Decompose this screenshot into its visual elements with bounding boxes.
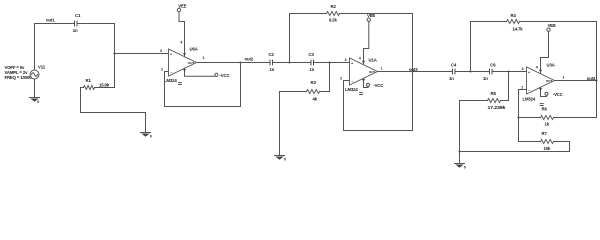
wire R4 right lead <box>520 21 597 23</box>
junction plus-input node <box>113 52 115 54</box>
ground G1 <box>30 98 40 105</box>
svg-text:1n: 1n <box>483 76 488 81</box>
resistor R2 <box>327 4 340 22</box>
svg-text:C6: C6 <box>490 63 496 68</box>
wire R7 left lead <box>519 141 541 143</box>
svg-text:−: − <box>170 70 172 74</box>
svg-text:+: + <box>170 52 172 56</box>
junction C4/C6 node <box>469 70 471 72</box>
svg-text:OUT: OUT <box>188 61 194 65</box>
capacitor C6 <box>483 63 496 82</box>
wire R6 right lead <box>554 117 597 119</box>
pin 11 arrow U1A <box>362 79 365 82</box>
svg-text:1n: 1n <box>310 67 315 72</box>
svg-text:-VCC: -VCC <box>373 83 383 88</box>
wire out1 to C1 <box>35 23 74 25</box>
wire node to op-amp U6A pin 3 <box>115 53 169 55</box>
wire U6A pin 11 stub <box>185 68 216 76</box>
svg-text:2: 2 <box>161 67 163 71</box>
svg-text:VEE: VEE <box>367 13 375 18</box>
svg-text:0: 0 <box>37 100 39 104</box>
svg-text:U1A: U1A <box>369 57 377 62</box>
svg-text:VEE: VEE <box>548 23 556 28</box>
wire U3A pin 11 stub <box>541 87 547 96</box>
wire R4/R6 vertical leg <box>596 22 598 118</box>
svg-text:1n: 1n <box>449 76 454 81</box>
ground G4 <box>455 164 466 170</box>
svg-text:0: 0 <box>464 166 466 170</box>
power terminal VEE (stage 2) <box>367 13 375 22</box>
resistor R4 <box>507 13 524 32</box>
wire U1A pin 2 stub <box>344 80 350 82</box>
svg-text:−: − <box>528 88 530 92</box>
pin 11 label U1A <box>360 93 363 95</box>
wire U6A pin 2 stub <box>165 71 169 73</box>
svg-text:0: 0 <box>150 135 152 139</box>
wire C2 to C3 <box>273 62 310 64</box>
svg-text:6.2k: 6.2k <box>329 17 338 22</box>
power terminal VEE (stage 1) <box>177 3 186 11</box>
power terminal VEE (stage 3) <box>547 23 556 31</box>
wire bottom run to ground stem <box>81 112 146 114</box>
svg-text:C4: C4 <box>451 63 457 68</box>
wire U1A output to C4 <box>378 71 452 73</box>
wire R2/feedback vertical leg <box>412 14 414 131</box>
svg-text:1n: 1n <box>270 67 275 72</box>
svg-text:R7: R7 <box>542 131 548 136</box>
op-amp U1A (LM324) <box>345 57 378 92</box>
svg-text:R2: R2 <box>331 4 337 9</box>
svg-text:10k: 10k <box>544 146 551 151</box>
wire node A down to R3 <box>329 63 331 92</box>
junction out3 feedback <box>411 70 413 72</box>
svg-text:14.7k: 14.7k <box>513 27 524 32</box>
junction R5 tap node <box>507 70 509 72</box>
svg-text:LM324: LM324 <box>345 87 358 92</box>
svg-text:+: + <box>528 70 530 74</box>
junction node A <box>328 61 330 63</box>
svg-text:R1: R1 <box>86 78 92 83</box>
wire C1 to corner <box>78 23 115 25</box>
junction ground rail <box>458 150 460 152</box>
svg-text:17.239k: 17.239k <box>488 105 507 110</box>
svg-text:LM324: LM324 <box>164 78 177 83</box>
power terminal -VCC (stage 1) <box>215 73 230 78</box>
wire node down to R1 <box>114 54 116 88</box>
resistor R7 <box>541 131 554 151</box>
wire C6 to U3A pin 3 <box>493 71 527 73</box>
svg-text:-VCC: -VCC <box>220 73 230 78</box>
svg-text:R5: R5 <box>491 91 497 96</box>
wire C4 to C6 <box>456 71 489 73</box>
svg-text:R6: R6 <box>542 107 548 112</box>
capacitor C3 <box>309 52 315 72</box>
capacitor C4 <box>449 63 457 82</box>
svg-text:C3: C3 <box>309 52 315 57</box>
svg-text:OUT: OUT <box>369 70 375 74</box>
wire R1 right lead <box>95 87 115 89</box>
wire U3A pin 2 stub <box>519 89 527 91</box>
wire C3 to U1A pin 3 <box>314 62 349 64</box>
junction node B <box>288 61 290 63</box>
svg-text:1n: 1n <box>73 28 78 33</box>
wire feedback U6A bottom <box>165 106 241 108</box>
wire feedback U1A left down <box>343 81 345 131</box>
svg-text:−: − <box>351 79 353 83</box>
svg-text:LM324: LM324 <box>523 97 536 102</box>
wire R1 left lead down <box>81 88 84 113</box>
wire R5 down to ground G4 <box>459 101 461 164</box>
svg-text:OUT: OUT <box>546 79 552 83</box>
junction out4 <box>595 79 597 81</box>
capacitor C2 <box>269 52 275 72</box>
svg-text:out3: out3 <box>409 67 418 72</box>
pin 4 arrow U6A <box>183 53 186 56</box>
power terminal -VCC (stage 2) <box>367 83 384 88</box>
resistor R5 <box>488 91 507 110</box>
svg-text:1: 1 <box>203 56 205 60</box>
svg-text:1k: 1k <box>545 122 550 127</box>
resistor R3 <box>307 80 320 101</box>
wire pin 2 node down <box>518 90 520 142</box>
capacitor C1 <box>73 13 81 33</box>
voltage source V11 <box>30 64 46 79</box>
svg-text:out4: out4 <box>587 76 596 81</box>
svg-text:out1: out1 <box>46 17 55 22</box>
svg-text:U3A: U3A <box>547 63 555 68</box>
svg-text:U6A: U6A <box>190 46 198 51</box>
wire R3 down to ground G3 <box>279 92 281 156</box>
ground G3 <box>275 156 286 162</box>
pin 11 arrow U6A <box>183 69 186 72</box>
junction out2 feedback <box>239 61 241 63</box>
svg-text:2: 2 <box>340 76 342 80</box>
wire feedback U6A left down <box>164 72 166 107</box>
resistor R1 <box>84 78 110 90</box>
wire R5 left lead <box>460 100 488 102</box>
wire R3 right lead <box>320 91 330 93</box>
svg-text:1: 1 <box>563 75 565 79</box>
wire VEE to U1A pin 4 <box>364 21 369 64</box>
wire feedback U6A right up <box>240 63 242 107</box>
wire R5 right lead <box>501 100 509 102</box>
wire VEE to U3A pin 4 <box>541 31 549 73</box>
svg-text:R4: R4 <box>511 13 517 18</box>
resistor R6 <box>541 107 554 127</box>
wire R7 right lead down <box>554 142 570 152</box>
pin 11 arrow U3A <box>539 88 542 91</box>
svg-text:4k: 4k <box>313 96 318 101</box>
wire U3A output <box>555 80 597 82</box>
svg-text:3: 3 <box>522 67 524 71</box>
svg-text:3: 3 <box>160 49 162 53</box>
svg-text:15.9k: 15.9k <box>99 82 110 87</box>
wire VEE to U6A pin 4 <box>179 12 185 57</box>
svg-text:1: 1 <box>381 66 383 70</box>
wire R2 left lead <box>290 13 327 15</box>
svg-text:V11: V11 <box>38 64 46 69</box>
pin 4 arrow U3A <box>539 70 542 73</box>
junction R6 row <box>517 116 519 118</box>
svg-text:C1: C1 <box>75 13 81 18</box>
svg-text:+: + <box>351 61 353 65</box>
svg-text:0: 0 <box>284 158 286 162</box>
wire node B up to R2 row <box>289 14 291 63</box>
op-amp U3A (LM324) <box>523 63 555 102</box>
op-amp U6A (LM324) <box>164 46 198 83</box>
pin 4 arrow U1A <box>362 61 365 64</box>
svg-text:3: 3 <box>345 58 347 62</box>
pin 11 label U6A <box>179 83 182 85</box>
svg-text:R3: R3 <box>311 80 317 85</box>
wire feedback U1A bottom <box>344 130 413 132</box>
wire V11 top up <box>34 24 36 71</box>
svg-text:-VCC: -VCC <box>553 92 563 97</box>
wire node down to R5 <box>508 72 510 101</box>
svg-text:VEE: VEE <box>178 3 186 8</box>
wire U1A pin 11 stub <box>364 78 369 87</box>
wire R4 left lead <box>471 21 507 23</box>
wire ground rail bottom <box>460 151 570 153</box>
pin 11 label U3A <box>540 104 543 106</box>
wire corner down to plus-input row <box>114 24 116 54</box>
svg-text:FREQ = 10000: FREQ = 10000 <box>5 75 33 80</box>
wire node up to R4 row <box>470 22 472 72</box>
wire U6A output to C2 <box>197 62 270 64</box>
wire R6 left lead <box>519 117 541 119</box>
wire R3 left lead <box>280 91 307 93</box>
ground G2 <box>141 133 152 139</box>
svg-text:out2: out2 <box>245 57 254 62</box>
power terminal -VCC (stage 3) <box>545 92 563 97</box>
wire down to ground G2 <box>145 113 147 133</box>
svg-text:C2: C2 <box>269 52 275 57</box>
wire V11 bottom down <box>34 79 36 98</box>
wire R2 right lead to output leg <box>340 13 413 15</box>
